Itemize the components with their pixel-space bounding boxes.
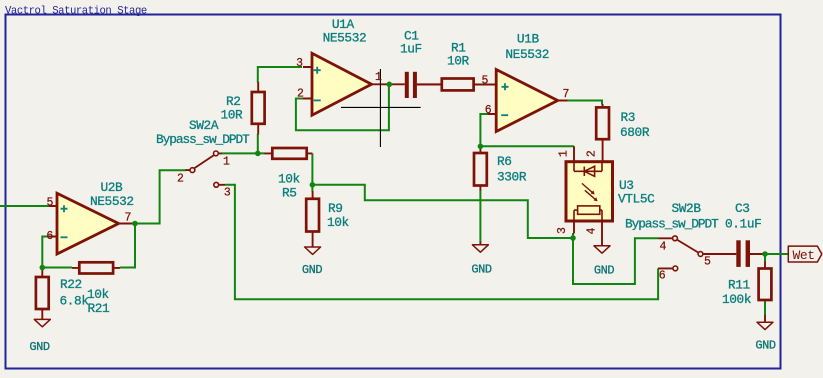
resistor R1 leads (417, 84, 496, 86)
wire U1A feedback pin2 to output (296, 84, 389, 130)
node C3/R11/Wet (762, 251, 768, 257)
svg-text:R3: R3 (621, 110, 636, 125)
svg-text:10R: 10R (447, 54, 470, 69)
svg-text:4: 4 (585, 227, 598, 234)
svg-text:5: 5 (704, 256, 711, 269)
U3 light arrows (582, 183, 598, 201)
ground symbol at R9 (305, 247, 321, 254)
svg-text:R6: R6 (497, 154, 512, 169)
svg-text:7: 7 (563, 88, 570, 101)
switch SW2A Bypass_sw_DPDT (186, 151, 226, 187)
wire R6 bottom to GND (479, 190, 481, 242)
wire U2B output node down to feedback resistor (120, 224, 135, 268)
svg-text:Wet: Wet (793, 248, 815, 263)
wire U2B output right/up to SW2A pin2 (135, 170, 186, 223)
svg-text:6: 6 (659, 270, 666, 283)
resistor R11 leads (764, 262, 766, 323)
svg-text:GND: GND (471, 263, 492, 277)
svg-text:GND: GND (594, 264, 615, 278)
U3 pin stubs (574, 146, 602, 246)
wire node to U3 pin1 (480, 145, 574, 147)
svg-text:NE5532: NE5532 (505, 47, 549, 62)
svg-text:U1B: U1B (517, 32, 540, 47)
svg-text:R11: R11 (728, 278, 751, 293)
wire U2B pin6 to feedback node (42, 237, 49, 268)
svg-text:10k: 10k (327, 215, 350, 230)
svg-text:2: 2 (585, 150, 598, 157)
svg-text:3: 3 (296, 57, 303, 70)
svg-text:1: 1 (223, 156, 230, 169)
wire R11 bottom to GND (764, 300, 766, 316)
capacitor C3 0.1uF (704, 240, 764, 267)
svg-text:Vactrol Saturation Stage: Vactrol Saturation Stage (5, 5, 147, 17)
resistor R6 leads (479, 146, 481, 245)
resistor R6 330R body (474, 153, 487, 186)
svg-text:330R: 330R (497, 170, 527, 185)
svg-text:2: 2 (297, 88, 304, 101)
hierarchical label Wet (788, 246, 822, 263)
svg-text:SW2B: SW2B (672, 201, 702, 216)
svg-text:SW2A: SW2A (189, 118, 219, 133)
svg-text:GND: GND (302, 263, 323, 277)
wire U3 pin3 stub lower part (572, 233, 574, 238)
ground symbol at U3 pin4 (594, 246, 610, 253)
svg-text:5: 5 (482, 75, 489, 88)
wire SW2A pin1 to R2 node (222, 152, 258, 154)
svg-text:680R: 680R (620, 125, 650, 140)
svg-text:GND: GND (755, 339, 776, 353)
resistor R3 leads / U3 pin2 (602, 104, 604, 162)
ground symbol at R6 (472, 245, 488, 252)
svg-text:Bypass_sw_DPDT: Bypass_sw_DPDT (625, 217, 719, 232)
op-amp U2B NE5532 (49, 193, 136, 254)
svg-text:U2B: U2B (101, 180, 124, 195)
U3 internal photoresistor (574, 206, 602, 221)
svg-text:NE5532: NE5532 (90, 194, 134, 209)
svg-text:R5: R5 (282, 186, 297, 201)
node U1B pin6/R6/U3 pin1 (478, 144, 484, 150)
svg-text:VTL5C: VTL5C (618, 192, 655, 207)
cursor crosshair (341, 69, 421, 147)
wire R9 top lead (311, 185, 313, 192)
wire R5 right lead down to R9 node (311, 153, 313, 184)
node U2B feedback (40, 265, 46, 271)
U3 internal LED (574, 162, 602, 177)
svg-text:6: 6 (485, 104, 492, 117)
svg-text:GND: GND (29, 340, 50, 354)
wire R2 bottom to node (258, 134, 265, 153)
node U3 pin3 (570, 235, 576, 241)
wire R9 node to U3 pin3 node (312, 185, 573, 238)
wire U3 pin3 node around GND to SW2B pin4 (573, 238, 659, 284)
resistor R2 leads (257, 82, 259, 135)
resistor R1 10R body (442, 79, 474, 91)
vactrol U3 VTL5C (566, 146, 613, 246)
wire SW2A pin3 long run to SW2B pin6 (225, 185, 658, 299)
svg-text:3: 3 (556, 227, 569, 234)
svg-text:1uF: 1uF (400, 42, 422, 57)
ground symbol at R22 (34, 319, 50, 326)
svg-text:6: 6 (46, 230, 53, 243)
op-amp U1B NE5532 (488, 70, 568, 132)
svg-text:NE5532: NE5532 (323, 31, 367, 46)
svg-text:10R: 10R (221, 108, 244, 123)
ground symbol at R11 (757, 322, 773, 329)
resistor R5 10k body (272, 148, 306, 159)
resistor R5 leads (265, 152, 313, 154)
wire R21 left lead to node A (42, 267, 72, 269)
svg-text:2: 2 (177, 172, 184, 185)
resistor R9 leads (312, 191, 314, 247)
wire R2 top to U1A pin3 (258, 67, 302, 83)
resistor R22 leads (41, 269, 43, 320)
resistor R11 100k body (759, 269, 772, 301)
svg-text:1: 1 (558, 150, 571, 157)
wires (green) (0, 67, 788, 316)
resistor R21 10k body (79, 262, 113, 273)
svg-text:0.1uF: 0.1uF (725, 217, 761, 232)
node U1A output (387, 82, 393, 88)
svg-text:C3: C3 (735, 201, 750, 216)
op-amp U1A NE5532 (303, 53, 372, 115)
component strokes (dark red) (36, 79, 771, 323)
svg-text:4: 4 (660, 241, 667, 254)
svg-text:Bypass_sw_DPDT: Bypass_sw_DPDT (156, 132, 250, 147)
svg-text:10k: 10k (87, 287, 110, 302)
svg-text:R9: R9 (328, 201, 343, 216)
node R5/R9 (310, 182, 316, 188)
resistor R3 680R body (596, 107, 609, 139)
svg-text:3: 3 (224, 186, 231, 199)
wire U1B output to R3 top (567, 101, 602, 105)
svg-text:R21: R21 (88, 301, 111, 316)
svg-text:10k: 10k (278, 172, 301, 187)
capacitor C1 1uF (372, 72, 442, 98)
resistor R9 10k body (306, 199, 319, 232)
svg-text:7: 7 (125, 212, 132, 225)
svg-text:5: 5 (47, 197, 54, 210)
wire U2B pin5 input from left edge (0, 205, 49, 207)
wire C3 node to Wet label (763, 253, 788, 255)
svg-text:100k: 100k (722, 292, 752, 307)
node R2/SW2A/R5 (255, 151, 261, 157)
resistor R22 6.8k body (36, 277, 49, 309)
switch SW2B Bypass_sw_DPDT (658, 236, 706, 271)
resistor R2 10R body (252, 92, 265, 124)
svg-text:6.8k: 6.8k (60, 294, 90, 309)
node U2B output (132, 221, 138, 227)
wire node down to R11 (764, 254, 766, 262)
svg-text:1: 1 (375, 71, 382, 84)
svg-text:R22: R22 (60, 277, 82, 292)
wire U1B pin6 down to node (480, 114, 487, 146)
resistor R21 leads (72, 267, 120, 269)
